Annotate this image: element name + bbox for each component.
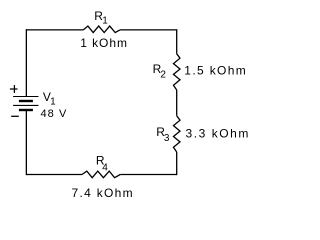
svg-text:3: 3 <box>164 133 170 144</box>
wire: left side, below battery <box>25 110 27 175</box>
wire: top side, left of R1 <box>26 29 83 31</box>
wire: top side, right of R1 <box>120 29 177 31</box>
svg-text:4: 4 <box>102 162 108 173</box>
wire: bottom side, left of R4 <box>26 174 82 176</box>
wire: right side, above R2 <box>176 29 178 54</box>
wire: left side, above battery <box>25 29 27 96</box>
resistor R3 (zigzag, right lower) <box>173 116 180 152</box>
wire: right side, between R2 and R3 <box>176 90 178 116</box>
plus sign (battery polarity) <box>10 85 18 93</box>
svg-text:2: 2 <box>160 69 166 80</box>
svg-text:1: 1 <box>102 15 108 26</box>
resistor R4 (zigzag, bottom) <box>82 171 120 178</box>
svg-text:1 kOhm: 1 kOhm <box>80 36 128 50</box>
minus sign (battery polarity) <box>11 115 19 117</box>
wire: bottom side, right of R4 <box>120 174 177 176</box>
svg-text:3.3 kOhm: 3.3 kOhm <box>186 127 250 141</box>
resistor R2 (zigzag, right upper) <box>173 54 180 90</box>
battery V1 plate: top long (positive) <box>13 96 38 98</box>
battery V1 plate: upper short thick (negative) <box>19 100 33 102</box>
svg-text:7.4 kOhm: 7.4 kOhm <box>72 186 134 200</box>
svg-text:1.5 kOhm: 1.5 kOhm <box>184 64 247 78</box>
svg-text:48 V: 48 V <box>41 108 68 120</box>
resistor R1 (zigzag, top) <box>83 26 120 33</box>
wire: right side, below R3 <box>176 152 178 175</box>
svg-text:1: 1 <box>50 97 56 108</box>
battery V1 plate: lower long (positive) <box>13 104 38 106</box>
battery V1 plate: bottom short thick (negative) <box>19 109 33 111</box>
